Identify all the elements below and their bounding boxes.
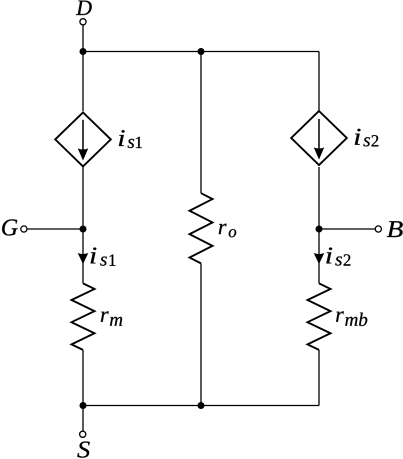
node: B junction — [316, 226, 323, 233]
resistor r_mb — [308, 283, 331, 350]
wire: right branch upper (rail to source i_s2) — [318, 52, 320, 112]
label D — [76, 1, 92, 15]
wire: right branch bottom (r_mb to bottom rail) — [318, 350, 320, 406]
wire: left branch bottom (r_m to bottom rail) — [82, 350, 84, 406]
label i_s1 (wire current) — [91, 248, 116, 266]
dependent current source i_s2 — [291, 111, 347, 165]
label r_m — [101, 311, 122, 325]
label i_s1 (source) — [119, 130, 142, 148]
terminal B (open circle) — [375, 226, 381, 232]
wire: right branch lower (node B to resistor r_mb) — [318, 229, 320, 283]
current arrow i_s1 on left wire — [78, 253, 89, 264]
label r_o — [219, 224, 236, 238]
terminal S (open circle) — [80, 431, 86, 437]
label i_s2 (source) — [355, 129, 379, 147]
node: bottom rail middle junction — [198, 402, 205, 409]
wire: D terminal to top rail — [82, 25, 84, 52]
label S — [77, 442, 89, 458]
resistor r_m — [72, 283, 95, 350]
wire: left branch lower (node G to resistor r_m) — [82, 229, 84, 283]
label i_s2 (wire current) — [326, 248, 350, 266]
label B — [387, 221, 403, 237]
resistor r_o — [190, 193, 213, 263]
wire: right branch mid (source i_s2 to node B) — [318, 167, 320, 229]
node: G junction — [80, 226, 87, 233]
wire: middle branch upper (rail to r_o) — [200, 52, 202, 194]
label r_mb — [336, 311, 367, 326]
wire: bottom rail to S terminal — [82, 406, 84, 432]
wire: top rail — [83, 51, 319, 53]
wire: G terminal to left branch — [27, 228, 83, 230]
node: bottom rail left junction — [80, 402, 87, 409]
label G — [2, 219, 18, 235]
wire: left branch upper (rail to source i_s1) — [82, 52, 84, 112]
wire: bottom rail — [83, 405, 319, 407]
node: top rail middle junction — [198, 48, 205, 55]
terminal G (open circle) — [21, 226, 27, 232]
wire: left branch mid (source i_s1 to node G) — [82, 167, 84, 229]
wire: right branch to B terminal — [319, 228, 375, 230]
terminal D (open circle) — [80, 19, 86, 25]
current arrow i_s2 on right wire — [314, 253, 325, 264]
dependent current source i_s1 — [55, 112, 111, 166]
wire: middle branch lower (r_o to bottom rail) — [200, 263, 202, 405]
node: top rail left junction — [80, 48, 87, 55]
